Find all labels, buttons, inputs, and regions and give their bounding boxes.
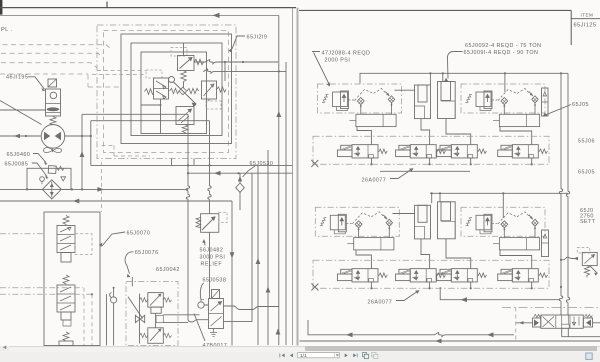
bottom return line long with hose break <box>308 320 514 337</box>
wire valve to left margin <box>0 109 46 111</box>
pilot check block beside A4 <box>542 230 549 257</box>
tank box <box>27 168 71 189</box>
valve V3 <box>202 81 217 99</box>
stack valve 1 body <box>57 226 75 253</box>
leader 65J0460 <box>33 154 46 163</box>
pilot check block beside A2 <box>542 88 549 116</box>
main supply vertical x561 with hose breaks <box>559 73 562 315</box>
zone tick I <box>106 2 108 8</box>
dashed verticals below <box>83 288 85 345</box>
svg-text:56J0482: 56J0482 <box>200 248 224 254</box>
65J0070 enclosure <box>44 212 100 346</box>
65J0538 solenoid box <box>212 290 220 299</box>
main filter diamond <box>42 180 61 199</box>
shutoff bowtie valve <box>135 315 144 322</box>
lower valve springs <box>140 333 148 337</box>
feeder line bank1 <box>360 73 568 83</box>
dashed box right of stack valve <box>75 234 92 255</box>
gauge circle symbol <box>111 297 117 303</box>
A3 output line to cylinder <box>393 213 415 215</box>
drops to valve row <box>357 119 532 145</box>
pressure line through filter <box>0 188 188 190</box>
svg-text:PL .: PL . <box>1 27 13 33</box>
svg-text:65JI125: 65JI125 <box>574 23 597 29</box>
relief drain down to 65J0538 <box>209 232 211 298</box>
solenoid valve unit 7 <box>437 269 487 290</box>
pump outlet wire left with arrow <box>0 135 41 137</box>
X mark <box>311 160 318 167</box>
svg-text:65J0460: 65J0460 <box>7 152 31 158</box>
solenoid valve unit 6 <box>396 269 446 290</box>
RV1 spring right <box>194 59 204 65</box>
bypass filter square with spring <box>48 166 56 174</box>
cluster outer dash-dot enclosure <box>97 25 236 159</box>
svg-text:2000 PSI: 2000 PSI <box>325 57 351 63</box>
stack valve 2 body <box>57 285 75 312</box>
line 65J0538 to x252 riser <box>224 173 253 321</box>
left sheet top border line 2 <box>0 14 279 16</box>
bank1 drain bus <box>380 170 470 172</box>
mid connector <box>155 313 157 328</box>
center closed section <box>562 315 569 324</box>
accumulator assembly A3 <box>315 207 399 250</box>
bank2 valve row dash-dot enclosure <box>313 260 549 288</box>
link 65J0538 to right buses <box>204 305 278 310</box>
V2 spring left <box>145 89 154 95</box>
directional valve body <box>541 315 584 328</box>
relief valve RV1 dashed pilot box <box>171 48 187 57</box>
junction dot <box>90 135 92 137</box>
upper valve springs <box>140 298 148 302</box>
solenoid valve unit 8 <box>498 269 548 290</box>
pilot circle <box>169 77 175 83</box>
right sheet top border <box>299 9 571 11</box>
bus line y173.2 with left arrow <box>188 172 293 174</box>
unloader spring <box>50 117 56 126</box>
directional valve left check box <box>533 318 541 327</box>
svg-text:65J0042: 65J0042 <box>156 267 180 273</box>
relief drain diagonal <box>590 266 598 274</box>
svg-text:RELIEF: RELIEF <box>201 262 223 268</box>
56J0482 dashed pilot box <box>219 212 227 222</box>
accumulator assembly A2 <box>461 84 545 127</box>
stack valve 1 lower box <box>61 253 71 263</box>
bottom-most return line <box>300 340 600 342</box>
links to 65J0538 <box>163 315 199 323</box>
right margin vertical buses <box>257 166 259 346</box>
stack valve 3 spring <box>63 332 69 341</box>
svg-text:65J0530: 65J0530 <box>250 161 274 167</box>
dashed pilot line 3 <box>1 63 97 68</box>
cluster output line A with hose break <box>194 60 278 65</box>
cluster output line B with hose break <box>203 69 286 74</box>
65J0042 dash-dot enclosure <box>126 282 178 346</box>
svg-text:65J0070: 65J0070 <box>127 231 151 237</box>
item table header underline <box>571 18 600 20</box>
cluster inner dashed enclosure <box>104 31 229 153</box>
65J0538 drain symbol <box>210 329 217 337</box>
dashed pilot line 2 <box>1 53 104 58</box>
roller circle <box>198 302 204 308</box>
svg-text:ITEM: ITEM <box>581 13 594 18</box>
return line with left arrow <box>0 201 232 346</box>
solid riser x106.5 <box>106 294 108 345</box>
X cross section <box>543 317 555 328</box>
item table left border <box>570 10 572 45</box>
vertical bus x209.5 with hose breaks <box>208 121 211 214</box>
directional valve dash-dot top edge <box>502 307 600 309</box>
left sheet top border line 1 <box>0 7 296 9</box>
56J0482 spring left <box>196 218 201 228</box>
cluster solid box 2 <box>131 43 222 136</box>
sheet corner black bar <box>0 0 2 15</box>
svg-text:65J0076: 65J0076 <box>135 250 159 256</box>
cluster internal wires <box>141 43 209 134</box>
vertical into V3 <box>224 62 226 81</box>
cylinder pair bank1 <box>415 82 456 119</box>
svg-text:65J009I-4 REQD - 90 TON: 65J009I-4 REQD - 90 TON <box>464 50 539 56</box>
flow arrow on top return line <box>213 13 220 18</box>
svg-text:65J05: 65J05 <box>578 170 595 176</box>
check valve 65J0530 diamond <box>236 183 245 192</box>
relief valve right body <box>582 252 597 265</box>
relief right dashed pilot box <box>577 248 589 254</box>
svg-text:26A0077: 26A0077 <box>362 177 387 183</box>
strainer propeller below pump <box>44 148 62 153</box>
65J0042 left rail <box>139 294 141 344</box>
diagonal leader to bowtie <box>128 297 143 319</box>
cylinder pair bank2 <box>415 202 456 239</box>
directional valve right check box <box>583 318 592 327</box>
gauge riser line <box>113 288 115 346</box>
feeder line bank2 <box>430 192 568 194</box>
cluster drain drops to bus <box>172 159 195 166</box>
right section down arrow <box>572 317 579 326</box>
dashed pilots into cluster <box>92 71 146 75</box>
right spring above <box>585 314 593 317</box>
drops below valve <box>562 328 600 336</box>
65J0538 valve body <box>209 299 224 329</box>
65J0042 upper valve <box>148 293 164 308</box>
unloader valve 46J1195 solenoid box <box>48 79 57 87</box>
svg-text:65J0085: 65J0085 <box>5 161 29 167</box>
V4 spring below <box>182 125 188 135</box>
pump outlet wire right <box>64 135 91 137</box>
stack valve 1 spring top <box>63 216 69 226</box>
hose break into 65J0538 area <box>188 320 209 323</box>
outlet line right <box>593 322 600 324</box>
svg-text:55J06: 55J06 <box>578 139 595 145</box>
gauge circle left of filter <box>40 177 45 182</box>
relief valve right takeoff with hose hump <box>561 257 578 260</box>
svg-text:46JI195: 46JI195 <box>6 75 28 81</box>
svg-text:65J0092-4 REQD - 75 TON: 65J0092-4 REQD - 75 TON <box>465 43 541 49</box>
drop from feed 2 to bus <box>90 121 92 166</box>
bus line y165.4 <box>91 164 293 166</box>
valve V4 bottom <box>176 107 194 125</box>
bank1 valve row dash-dot enclosure <box>313 136 549 164</box>
directional valve dashed left edge <box>515 308 517 342</box>
relief right spring below <box>584 266 589 278</box>
dashed pilot line 4 <box>0 74 121 87</box>
left spring above <box>534 314 542 317</box>
V3 dashed pilot box <box>206 101 221 109</box>
main return vertical x568 with hose breaks <box>566 73 569 315</box>
solenoid valve unit 1 <box>337 145 387 166</box>
main pump circle <box>41 125 65 149</box>
svg-text:3000 PSI: 3000 PSI <box>200 255 226 261</box>
directional valve inlet line <box>516 322 533 324</box>
pilot valve V2 <box>154 78 169 99</box>
A1 output line to cylinder <box>395 89 415 91</box>
cluster solid box 1 <box>121 34 232 144</box>
solenoid valve unit 4 <box>498 145 548 166</box>
port box below upper valve <box>151 307 161 313</box>
accumulator assembly A4 <box>461 207 545 250</box>
65J0042 leader stub <box>131 277 133 286</box>
leader 65J0085 <box>32 163 47 177</box>
dash-dot pilot into stack <box>0 233 44 235</box>
dashed pilot line 1 <box>3 45 113 50</box>
relief 56J0482 <box>201 214 219 233</box>
junction dot <box>25 135 27 137</box>
pilot diagonal arrow <box>174 82 197 106</box>
drops to valve row 2 <box>356 239 532 269</box>
center spring-check-spring chain <box>170 88 180 93</box>
mid port box <box>156 315 163 322</box>
relief valve RV1 <box>178 56 195 71</box>
RV1 vertical spring below <box>181 71 187 84</box>
svg-text:1/1: 1/1 <box>300 353 307 359</box>
svg-text:47J2088-4 REQD: 47J2088-4 REQD <box>322 50 371 56</box>
solenoid valve unit 5 <box>337 269 387 290</box>
dashed pilot drop from cluster to 65J0070 <box>101 162 103 212</box>
svg-text:SETT: SETT <box>580 219 596 225</box>
svg-text:65J0538: 65J0538 <box>203 278 227 284</box>
unloader valve body <box>46 89 61 116</box>
stack valve 2 spring top <box>63 275 69 285</box>
tank feed vertical with up arrow <box>81 114 83 189</box>
stack valve 3 body <box>59 341 73 346</box>
65J0042 lower valve <box>148 328 164 344</box>
page divider <box>297 8 299 346</box>
dash-dot pilot lines lower <box>0 287 83 289</box>
stack valve 2 lower box <box>61 312 71 320</box>
X mark bank2 <box>311 284 318 291</box>
line from bank2 row to lower right <box>440 287 559 300</box>
feed line to relief bus <box>82 113 188 115</box>
cluster solid box 3 <box>141 52 207 134</box>
vent triangle <box>61 177 66 181</box>
svg-text:65JI2I9: 65JI2I9 <box>247 35 268 41</box>
svg-text:26A0077: 26A0077 <box>368 299 393 305</box>
suction diagonal wire <box>0 101 42 125</box>
solenoid valve unit 3 <box>437 145 487 166</box>
svg-text:65J05: 65J05 <box>572 102 589 108</box>
pilot valve V2 dashed box <box>146 70 162 78</box>
feed line 2 to relief bus <box>91 120 210 122</box>
vertical bus x188 with hose breaks <box>186 114 189 319</box>
V3 spring right <box>217 87 227 92</box>
accumulator assembly A1 <box>318 84 402 127</box>
solenoid valve unit 2 <box>396 145 446 166</box>
